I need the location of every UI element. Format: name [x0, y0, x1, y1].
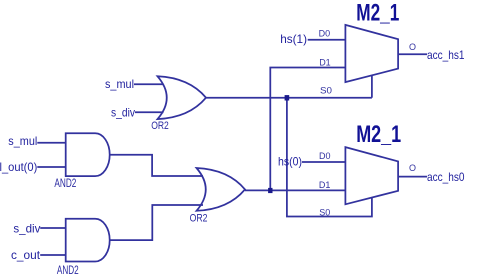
- svg-text:s_mul: s_mul: [105, 77, 134, 91]
- svg-text:s_div: s_div: [13, 221, 40, 235]
- wire s_mul to AND2 #1: [37, 142, 65, 144]
- svg-text:acc_hs0: acc_hs0: [427, 170, 465, 184]
- junction S0 net: [285, 95, 290, 100]
- wire AND2#2 output step to OR2 mid: [110, 205, 204, 240]
- svg-text:s_div: s_div: [111, 105, 135, 119]
- mux M2_1 top body: [345, 25, 398, 82]
- wire s_div to OR2 bottom input: [135, 111, 164, 113]
- wire O output bottom mux: [398, 176, 427, 178]
- junction D1 net: [268, 188, 272, 193]
- wire al_out(0) to AND2 #1: [37, 166, 65, 168]
- svg-text:O: O: [409, 42, 416, 52]
- wire s_div to AND2 #2: [40, 227, 65, 229]
- and-gate AND2 #1: [66, 133, 110, 176]
- wire S0 net down to bottom mux: [287, 98, 372, 217]
- wire O output top mux: [398, 53, 427, 55]
- wire AND2#1 output step to OR2 mid: [110, 155, 204, 176]
- svg-text:hs(0): hs(0): [278, 155, 302, 169]
- svg-text:O: O: [409, 163, 416, 173]
- svg-text:D0: D0: [319, 151, 331, 161]
- svg-text:OR2: OR2: [190, 213, 208, 225]
- svg-text:c_out: c_out: [11, 248, 41, 262]
- and-gate AND2 #2: [66, 219, 110, 262]
- svg-text:al_out(0): al_out(0): [0, 160, 37, 174]
- wire s_mul to OR2 top input: [134, 83, 164, 85]
- wire S0 riser into top mux: [371, 76, 373, 98]
- wire hs(1) to D0 top mux: [308, 39, 346, 41]
- svg-text:M2_1: M2_1: [356, 0, 399, 27]
- svg-text:M2_1: M2_1: [356, 121, 401, 148]
- wire OR2-top output / S0 net: [206, 97, 372, 99]
- mux M2_1 bottom body: [345, 147, 398, 204]
- or-gate OR2 middle: [197, 168, 246, 211]
- wire c_out to AND2 #2: [40, 254, 65, 256]
- wire hs(0) to D0 bottom mux: [302, 161, 345, 163]
- wire OR2-mid output / D1 net: [245, 189, 345, 191]
- svg-text:acc_hs1: acc_hs1: [427, 48, 465, 62]
- wire D1 net vertical and into top mux: [270, 68, 345, 191]
- svg-text:AND2: AND2: [57, 263, 79, 277]
- svg-text:S0: S0: [320, 86, 332, 96]
- svg-text:AND2: AND2: [54, 176, 76, 190]
- svg-text:S0: S0: [319, 207, 330, 217]
- or-gate OR2 top: [158, 76, 207, 119]
- svg-text:hs(1): hs(1): [280, 32, 307, 46]
- svg-text:D0: D0: [319, 29, 331, 39]
- svg-text:OR2: OR2: [151, 120, 169, 132]
- svg-text:D1: D1: [319, 180, 331, 190]
- svg-text:D1: D1: [319, 57, 331, 67]
- svg-text:s_mul: s_mul: [8, 134, 37, 148]
